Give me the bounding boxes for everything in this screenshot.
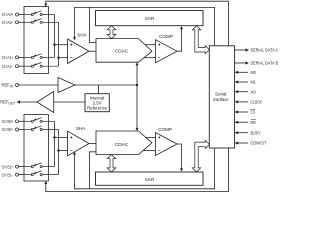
svg-text:M1: M1 xyxy=(251,80,257,85)
svg-text:CH A1+: CH A1+ xyxy=(2,55,14,60)
svg-text:SAR: SAR xyxy=(145,177,155,182)
wire SHA B output to CDAC B xyxy=(89,143,96,145)
switch A0- xyxy=(24,19,59,24)
svg-text:Reference: Reference xyxy=(87,105,108,110)
pin M0 (input) xyxy=(235,70,257,75)
mux A box xyxy=(24,7,48,74)
pin BUSY (input) xyxy=(235,130,261,135)
hollow double arrow CDAC A / SAR A bus xyxy=(107,26,116,39)
wire COMP A output to SAR A xyxy=(177,29,182,51)
svg-text:SERIAL DATA B: SERIAL DATA B xyxy=(251,61,279,66)
svg-text:CH A1−: CH A1− xyxy=(2,64,14,69)
wire CDAC B to COMP B - xyxy=(143,150,155,152)
wire reference box to REF rail xyxy=(97,85,99,94)
switch B0+ xyxy=(24,118,54,123)
node REF junction xyxy=(136,84,138,86)
svg-text:RD: RD xyxy=(251,120,256,125)
wire reference box to REF OUT driver xyxy=(54,101,85,103)
wire SHA A output to CDAC A xyxy=(89,50,96,52)
wire REF rail vertical between CDACs xyxy=(136,65,138,128)
arrow into SHA A top edge xyxy=(73,37,76,40)
svg-text:Serial: Serial xyxy=(215,91,226,96)
comparator COMP B xyxy=(156,127,178,156)
svg-text:CH B1−: CH B1− xyxy=(2,172,14,177)
pin M1 (input) xyxy=(235,80,257,85)
svg-text:CH A0−: CH A0− xyxy=(2,20,14,25)
wire: control branch to CDAC A left edge xyxy=(89,7,96,42)
svg-text:Interface: Interface xyxy=(213,97,229,102)
pin SERIAL DATA A (output) xyxy=(235,48,279,53)
reference box Internal 2.5V Reference xyxy=(85,94,109,112)
SAR A box xyxy=(96,11,204,26)
arrow COMP B to SAR B xyxy=(180,168,183,171)
comparator COMP A xyxy=(156,34,178,63)
svg-text:M0: M0 xyxy=(251,70,257,75)
pin CS-bar (input) xyxy=(235,109,256,114)
wire REF rail horizontal xyxy=(75,84,137,86)
svg-text:COMP: COMP xyxy=(158,127,172,132)
hollow bent arrow SAR B / serial interface bus xyxy=(192,140,209,172)
svg-text:CH A0+: CH A0+ xyxy=(2,12,14,17)
arrow REF into CDAC A xyxy=(136,62,139,65)
svg-text:BUSY: BUSY xyxy=(251,130,261,135)
wire CDAC A to COMP A + xyxy=(145,44,156,46)
wire to SHA A - input xyxy=(59,57,68,59)
op-amp SHA A (track/hold amp) xyxy=(68,32,89,63)
svg-text:A0: A0 xyxy=(251,89,257,94)
op-amp REF IN buffer xyxy=(58,78,75,93)
svg-text:SHA: SHA xyxy=(77,32,87,37)
serial interface box xyxy=(209,46,234,148)
SAR B box xyxy=(96,172,204,185)
wire: channel-select rail, serial interface to mux B xyxy=(46,148,229,192)
svg-text:SERIAL DATA A: SERIAL DATA A xyxy=(251,48,279,53)
wire: T/H control rail, serial interface to SHA B xyxy=(75,148,215,189)
wire: channel-select rail, serial interface to mux A xyxy=(46,1,229,46)
node junction SHA A + xyxy=(53,44,55,46)
arrow into SHA B bottom edge xyxy=(73,152,76,155)
pin CONVST (input) xyxy=(235,141,267,146)
arrow REF into CDAC B xyxy=(136,128,139,131)
svg-text:CS: CS xyxy=(251,110,256,115)
svg-text:CLOCK: CLOCK xyxy=(251,100,263,105)
wire REF OUT xyxy=(20,101,38,103)
svg-text:CH B1+: CH B1+ xyxy=(2,164,14,169)
arrow into mux A top xyxy=(44,4,47,7)
switch B1- xyxy=(24,171,59,176)
svg-text:COMP: COMP xyxy=(159,34,173,39)
node junction SHA B + xyxy=(53,136,55,138)
svg-text:REFOUT: REFOUT xyxy=(0,100,15,106)
arrow REF OUT xyxy=(17,100,21,103)
switch A1+ xyxy=(24,54,54,59)
switch B1+ xyxy=(24,163,54,168)
wire REF IN to buffer xyxy=(19,84,59,86)
wire mux B + bus xyxy=(53,121,55,166)
svg-text:REFIN: REFIN xyxy=(2,83,14,89)
node junction SHA B - xyxy=(57,149,59,151)
node junction SHA A - xyxy=(57,57,59,59)
wire mux A - bus xyxy=(58,22,60,66)
wire: T/H control rail, serial interface to SHA A xyxy=(75,7,215,45)
wire COMP B output to SAR B xyxy=(177,144,182,169)
svg-text:CH B0−: CH B0− xyxy=(2,127,14,132)
op-amp REF OUT driver xyxy=(37,92,54,113)
wire CDAC A to COMP A - xyxy=(144,57,156,59)
pin CLOCK (input) xyxy=(235,100,262,105)
wire CDAC B to COMP B + xyxy=(146,136,156,138)
hollow bent arrow SAR A / serial interface bus xyxy=(192,26,209,54)
mux B box xyxy=(24,115,48,182)
svg-text:CDAC: CDAC xyxy=(115,142,129,147)
arrow COMP A to SAR A xyxy=(180,26,183,29)
switch A1- xyxy=(24,63,59,68)
switch B0- xyxy=(24,126,59,131)
wire to SHA B + input xyxy=(54,136,67,138)
arrow into mux B bottom xyxy=(44,181,47,184)
svg-text:SAR: SAR xyxy=(145,16,155,21)
svg-text:CDAC: CDAC xyxy=(115,49,129,54)
wire: control branch to CDAC B left edge xyxy=(89,152,96,189)
wire to SHA A + input xyxy=(54,44,67,46)
hollow double arrow CDAC B / SAR B bus xyxy=(107,155,116,172)
pin SERIAL DATA B (output) xyxy=(235,61,279,66)
pin A0 (input) xyxy=(235,89,257,94)
CDAC B (capacitor DAC) xyxy=(96,131,152,155)
svg-text:CH B0+: CH B0+ xyxy=(2,119,14,124)
op-amp SHA B (track/hold amp) xyxy=(68,126,89,156)
CDAC A (capacitor DAC) xyxy=(96,39,152,63)
wire mux B - bus xyxy=(58,130,60,175)
wire to SHA B - input xyxy=(59,150,68,152)
svg-text:CONVST: CONVST xyxy=(251,141,267,146)
pin RD-bar (input) xyxy=(235,120,256,125)
switch A0+ xyxy=(24,11,54,16)
wire mux A + bus xyxy=(53,15,55,58)
svg-text:SHA: SHA xyxy=(76,126,86,131)
